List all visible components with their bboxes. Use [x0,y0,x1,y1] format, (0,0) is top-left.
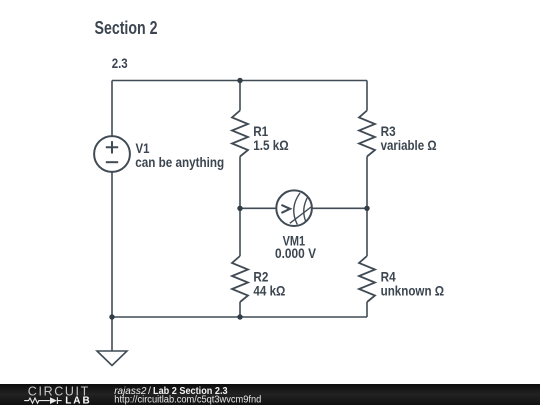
junction bottom-middle node (R2 bottom) [237,314,242,319]
footer logo resistor-diode glyph [24,397,62,404]
wire middle column upper lead [239,81,241,111]
wire ground stem [111,317,113,351]
wire left vertical top (top rail to V1 plus) [111,81,113,136]
junction mid-left node (VM1 left) [237,206,242,211]
junction top node (R1 top) [237,78,242,83]
svg-text:1.5 kΩ: 1.5 kΩ [253,137,289,153]
svg-text:0.000 V: 0.000 V [275,245,317,261]
junction mid-right node (VM1 right) [364,206,369,211]
svg-text:2.3: 2.3 [112,55,128,71]
wire mid rail left (node to voltmeter) [240,207,276,209]
resistor R1 [232,111,248,157]
svg-text:http://circuitlab.com/c5qt3wvc: http://circuitlab.com/c5qt3wvcm9fnd [114,394,261,405]
wire left vertical bottom (V1 minus to bottom rail) [111,172,113,317]
svg-text:Section 2: Section 2 [95,18,158,38]
wire right column below mid rail [366,208,368,256]
ground [97,351,127,366]
voltmeter VM1 [276,190,312,226]
wire middle column lower lead [239,302,241,317]
junction bottom-left node (ground tap) [109,314,114,319]
wire middle column between R1 and mid rail [239,157,241,209]
resistor R3 [359,111,375,157]
wire right column upper lead [366,81,368,111]
svg-text:variable Ω: variable Ω [381,137,437,153]
svg-text:unknown Ω: unknown Ω [381,282,445,298]
resistor R4 [359,256,375,302]
resistor R2 [232,256,248,302]
wire bottom rail [112,316,367,318]
voltage source V1 [94,136,130,172]
wire mid rail right (voltmeter to node) [312,207,367,209]
wire middle column below mid rail [239,208,241,256]
svg-text:can be anything: can be anything [135,154,224,170]
wire right column lower lead [366,302,368,317]
svg-text:LAB: LAB [65,396,90,405]
wire right column between R3 and mid rail [366,157,368,209]
wire top horizontal (node 2.3) [112,80,367,82]
svg-text:44 kΩ: 44 kΩ [253,282,285,298]
